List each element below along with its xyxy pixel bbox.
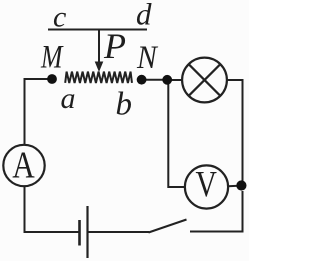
svg-text:P: P	[103, 26, 126, 66]
svg-text:a: a	[61, 82, 76, 115]
svg-text:d: d	[136, 0, 152, 32]
svg-text:M: M	[40, 40, 63, 76]
svg-text:b: b	[116, 86, 133, 122]
svg-text:A: A	[12, 144, 35, 187]
svg-text:V: V	[196, 164, 217, 205]
svg-text:N: N	[136, 39, 159, 76]
svg-text:c: c	[53, 1, 66, 34]
